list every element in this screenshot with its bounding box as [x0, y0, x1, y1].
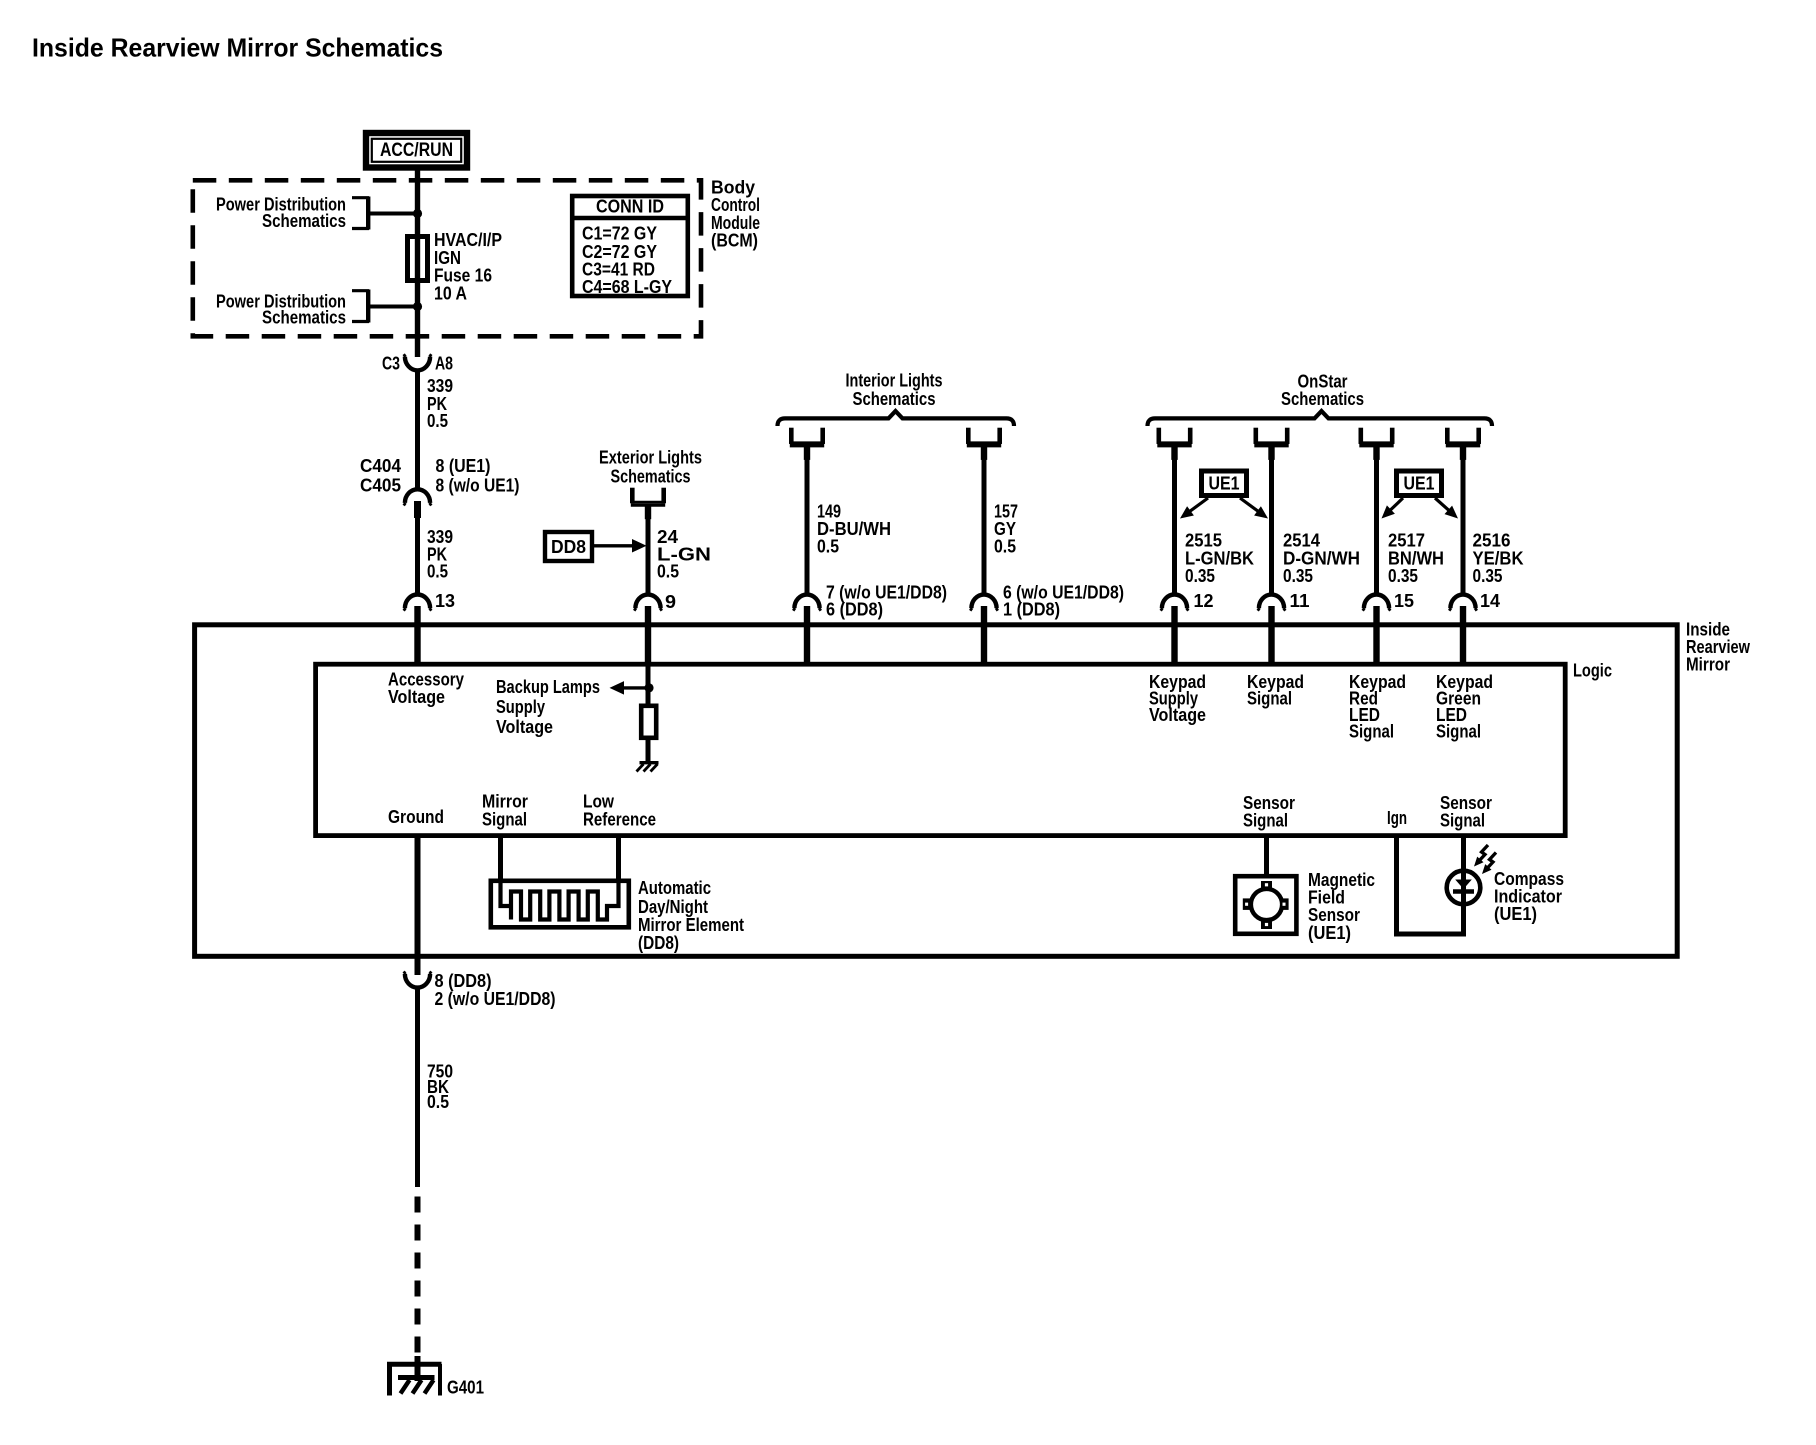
label Compass Indicator (UE1)	[1494, 869, 1564, 924]
wire 2516 YE/BK 0.35	[1463, 446, 1524, 596]
junction dot backup lamps	[644, 683, 653, 692]
wire mirror signal to element	[498, 834, 503, 881]
wire 339 PK 0.5 (lower)	[418, 516, 454, 596]
svg-text:Day/Night: Day/Night	[638, 897, 708, 917]
wire 2514 D-GN/WH 0.35	[1272, 446, 1361, 596]
svg-text:Ign: Ign	[1387, 808, 1407, 828]
svg-text:8 (UE1): 8 (UE1)	[436, 456, 491, 476]
CONN ID table	[570, 196, 688, 297]
svg-text:2 (w/o UE1/DD8): 2 (w/o UE1/DD8)	[435, 989, 556, 1009]
connector pins 7 (w/o UE1/DD8) / 6 (DD8)	[793, 583, 947, 667]
label Automatic Day/Night Mirror Element (DD8)	[638, 878, 744, 953]
svg-text:Schematics: Schematics	[262, 308, 346, 328]
terminal OnStar wire 4	[1445, 428, 1480, 460]
svg-text:C404: C404	[360, 456, 401, 476]
wire 750 BK 0.5 (dashed run)	[415, 1197, 421, 1370]
svg-text:0.5: 0.5	[427, 562, 448, 582]
connector pin 15	[1363, 591, 1414, 666]
terminal OnStar wire 2	[1254, 428, 1289, 460]
svg-text:Schematics: Schematics	[1281, 389, 1364, 409]
svg-text:0.35: 0.35	[1388, 566, 1418, 586]
svg-text:Signal: Signal	[482, 809, 527, 829]
junction dot A	[413, 209, 422, 218]
svg-text:1 (DD8): 1 (DD8)	[1003, 600, 1060, 620]
svg-text:Signal: Signal	[1247, 689, 1292, 709]
brace Interior Lights Schematics	[778, 371, 1015, 426]
wire pin9 internal to resistor	[646, 664, 651, 707]
magnetic field sensor (UE1)	[1235, 876, 1296, 934]
svg-text:Signal: Signal	[1349, 722, 1394, 742]
label fuse HVAC/I/P IGN Fuse 16 10 A	[434, 230, 502, 303]
svg-text:12: 12	[1194, 591, 1214, 611]
svg-text:0.35: 0.35	[1185, 566, 1215, 586]
wire 750 BK 0.5 (solid)	[418, 986, 454, 1188]
svg-text:CONN ID: CONN ID	[596, 197, 664, 217]
wire low reference to element	[616, 834, 621, 881]
svg-text:UE1: UE1	[1404, 474, 1435, 494]
pin label Backup Lamps Supply Voltage with arrow	[496, 677, 648, 737]
svg-text:A8: A8	[435, 354, 453, 374]
svg-text:C405: C405	[360, 476, 401, 496]
pin label Keypad Green LED Signal	[1436, 672, 1493, 742]
svg-text:Reference: Reference	[583, 809, 656, 829]
label Body Control Module (BCM)	[711, 178, 760, 251]
pin label Keypad Signal	[1247, 672, 1304, 709]
svg-text:C4=68 L-GY: C4=68 L-GY	[582, 277, 672, 297]
wire 149 D-BU/WH 0.5	[807, 446, 891, 596]
terminal interior lights wire 1	[789, 428, 824, 460]
svg-text:11: 11	[1290, 591, 1310, 611]
UE1 option box (right) with arrows	[1382, 471, 1459, 519]
svg-text:0.5: 0.5	[427, 1092, 449, 1112]
svg-text:0.5: 0.5	[994, 536, 1016, 556]
connector pin 12	[1161, 591, 1214, 666]
off-page terminal Exterior Lights Schematics	[599, 448, 702, 520]
wire sensor signal to magnetic field sensor	[1264, 834, 1269, 877]
pin label Keypad Supply Voltage	[1149, 672, 1206, 725]
svg-text:Schematics: Schematics	[853, 389, 936, 409]
terminal OnStar wire 3	[1359, 428, 1394, 460]
connector pins 6 (w/o UE1/DD8) / 1 (DD8)	[970, 583, 1124, 667]
terminal OnStar wire 1	[1157, 428, 1192, 460]
wire sensor signal through compass indicator	[1461, 834, 1466, 937]
connector pin 14	[1449, 591, 1500, 666]
junction dot B	[413, 302, 422, 311]
connector C404 / C405, pins 8 (UE1) / 8 (w/o UE1)	[360, 456, 520, 518]
connector C3 / pin A8	[382, 354, 453, 374]
svg-text:Mirror: Mirror	[1686, 655, 1730, 675]
svg-text:Inside Rearview Mirror Schemat: Inside Rearview Mirror Schematics	[32, 33, 443, 63]
svg-text:Voltage: Voltage	[388, 687, 445, 707]
UE1 option box (left) with arrows	[1180, 471, 1268, 519]
connector 8 (DD8) / 2 (w/o UE1/DD8)	[404, 971, 556, 1009]
svg-text:0.5: 0.5	[817, 536, 839, 556]
wire 2517 BN/WH 0.35	[1377, 446, 1445, 596]
svg-text:(DD8): (DD8)	[638, 933, 679, 953]
BCM dashed module box	[193, 180, 701, 336]
svg-text:UE1: UE1	[1209, 474, 1240, 494]
wire: ACC/RUN feed through fuse to C3	[415, 167, 420, 357]
svg-text:Signal: Signal	[1440, 810, 1485, 830]
internal ground symbol	[637, 763, 659, 772]
automatic day/night mirror element (DD8)	[491, 879, 629, 928]
svg-text:Schematics: Schematics	[611, 466, 691, 486]
Logic inner box	[316, 661, 1612, 836]
wire 24 L-GN 0.5	[648, 505, 711, 596]
svg-text:Automatic: Automatic	[638, 878, 711, 898]
pin label Sensor Signal (right)	[1440, 793, 1492, 831]
svg-text:Voltage: Voltage	[1149, 705, 1206, 725]
svg-text:0.5: 0.5	[657, 562, 679, 582]
pin label Sensor Signal (left)	[1243, 793, 1295, 831]
pin label Accessory Voltage	[388, 670, 464, 708]
svg-text:10 A: 10 A	[434, 284, 467, 304]
label Magnetic Field Sensor (UE1)	[1308, 870, 1375, 943]
svg-text:Mirror Element: Mirror Element	[638, 915, 744, 935]
svg-text:ACC/RUN: ACC/RUN	[380, 140, 453, 161]
ground wire from logic box	[415, 834, 421, 976]
pin label Mirror Signal	[482, 792, 528, 830]
svg-text:8 (w/o UE1): 8 (w/o UE1)	[436, 476, 520, 496]
svg-text:15: 15	[1394, 591, 1414, 611]
svg-text:(UE1): (UE1)	[1494, 904, 1537, 924]
wire 2515 L-GN/BK 0.35	[1175, 446, 1255, 596]
connector pin 13 into mirror	[404, 591, 455, 666]
svg-text:Signal: Signal	[1436, 722, 1481, 742]
svg-text:6 (DD8): 6 (DD8)	[826, 600, 883, 620]
power source box ACC/RUN	[366, 133, 467, 168]
svg-text:(BCM): (BCM)	[711, 230, 758, 250]
wire 157 GY 0.5	[984, 446, 1018, 596]
resistor (internal pull)	[641, 706, 656, 738]
svg-text:14: 14	[1480, 591, 1500, 611]
svg-text:C3: C3	[382, 354, 400, 374]
pin label Low Reference	[583, 792, 656, 830]
connector pin 9	[634, 592, 676, 666]
Inside Rearview Mirror outer box	[195, 619, 1751, 956]
LED light arrows	[1474, 845, 1496, 874]
svg-text:Backup Lamps: Backup Lamps	[496, 677, 600, 697]
pin label Keypad Red LED Signal	[1349, 672, 1406, 742]
svg-text:C1=72 GY: C1=72 GY	[582, 223, 657, 243]
svg-text:9: 9	[665, 592, 676, 612]
svg-text:Schematics: Schematics	[262, 211, 346, 231]
terminal interior lights wire 2	[966, 428, 1001, 460]
wire resistor to internal ground	[646, 738, 651, 763]
svg-text:Exterior Lights: Exterior Lights	[599, 448, 702, 468]
DD8 reference box with arrow	[545, 532, 647, 561]
svg-text:Supply: Supply	[496, 697, 545, 717]
svg-text:Ground: Ground	[388, 807, 444, 827]
svg-text:DD8: DD8	[551, 537, 586, 557]
wire 339 PK 0.5 (upper)	[418, 369, 454, 492]
svg-text:Voltage: Voltage	[496, 717, 553, 737]
wire Ign to compass indicator	[1397, 834, 1464, 935]
svg-text:Interior Lights: Interior Lights	[846, 371, 943, 391]
fuse 16 HVAC/I/P IGN 10A	[408, 237, 428, 281]
svg-text:(UE1): (UE1)	[1308, 923, 1351, 943]
svg-text:Logic: Logic	[1573, 661, 1612, 681]
brace OnStar Schematics	[1148, 371, 1493, 426]
compass indicator LED (UE1)	[1447, 868, 1481, 908]
svg-text:0.35: 0.35	[1473, 566, 1503, 586]
svg-text:0.5: 0.5	[427, 411, 448, 431]
svg-text:13: 13	[435, 591, 455, 611]
off-page ref: Power Distribution Schematics (upper)	[216, 194, 418, 231]
svg-text:Signal: Signal	[1243, 810, 1288, 830]
off-page ref: Power Distribution Schematics (lower)	[216, 290, 418, 328]
connector pin 11	[1258, 591, 1310, 666]
svg-text:G401: G401	[447, 1378, 484, 1398]
svg-text:339: 339	[427, 376, 453, 396]
svg-text:0.35: 0.35	[1283, 566, 1313, 586]
ground G401	[387, 1356, 484, 1398]
